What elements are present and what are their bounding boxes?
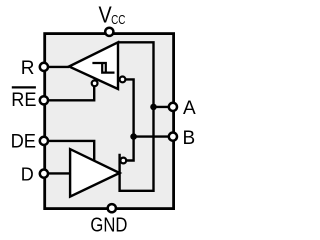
svg-text:DE: DE	[11, 132, 36, 153]
svg-text:GND: GND	[90, 213, 127, 236]
svg-text:D: D	[21, 165, 34, 185]
svg-text:R: R	[21, 58, 35, 79]
svg-text:CC: CC	[111, 12, 125, 27]
svg-text:RE: RE	[11, 90, 36, 111]
svg-text:A: A	[183, 98, 196, 119]
svg-text:B: B	[183, 128, 196, 149]
